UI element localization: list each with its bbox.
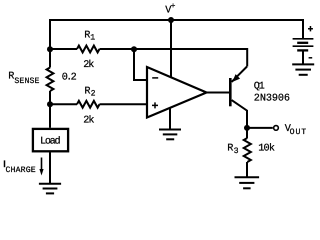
wire battery drop from top rail [302, 19, 304, 39]
wire left rail lower [49, 91, 51, 128]
svg-text:OUT: OUT [290, 128, 307, 137]
label R2 [84, 87, 95, 99]
svg-text:Q1: Q1 [254, 82, 265, 93]
transistor Q1 base bar [229, 78, 232, 106]
label R3 [227, 144, 238, 157]
op-amp U1 triangle [147, 67, 207, 118]
wire R2 right segment to non-inverting input [100, 103, 148, 105]
transistor Q1 emitter lead [232, 67, 247, 82]
label + (battery) [308, 26, 313, 31]
label R1 [84, 30, 95, 42]
wire R3 bottom to ground [246, 162, 248, 177]
ground (op-amp) [159, 130, 181, 140]
wire left rail upper [49, 19, 51, 68]
node B junction dot (bottom of RSENSE / R2 left) [47, 101, 53, 107]
svg-text:SENSE: SENSE [14, 77, 39, 86]
resistor RSENSE [47, 68, 54, 92]
terminal VOUT circle [274, 126, 279, 131]
battery B1 plates [293, 39, 314, 51]
svg-text:0.2: 0.2 [62, 72, 77, 83]
transistor Q1 emitter arrowhead [232, 74, 240, 82]
node VOUT junction dot [244, 125, 250, 131]
svg-text:2N3906: 2N3906 [254, 94, 290, 105]
op-amp minus sign [152, 77, 158, 79]
wire V+ drop to op-amp [170, 20, 172, 79]
svg-text:10k: 10k [258, 143, 275, 155]
svg-text:R: R [84, 87, 90, 98]
op-amp plus sign [152, 102, 158, 108]
wire load box to ground [49, 152, 51, 184]
svg-text:CHARGE: CHARGE [6, 166, 36, 175]
resistor R2 [77, 101, 100, 108]
svg-text:Load: Load [40, 136, 61, 148]
label VOUT [285, 124, 306, 137]
wire VOUT [247, 127, 273, 129]
svg-text:2: 2 [91, 90, 96, 99]
node A junction dot (top of RSENSE / R1 left) [47, 46, 53, 52]
wire R1 left segment [50, 48, 77, 50]
wire op-amp V- pin down [169, 108, 171, 129]
svg-text:+: + [171, 3, 176, 11]
svg-text:3: 3 [234, 147, 239, 156]
wire R1 right segment to emitter corner [100, 49, 248, 67]
wire VOUT node to R3 [246, 128, 248, 138]
svg-text:2k: 2k [83, 59, 94, 71]
svg-text:R: R [227, 144, 233, 155]
svg-text:2k: 2k [83, 115, 94, 127]
resistor R3 [244, 138, 251, 162]
label V+ [165, 3, 175, 16]
svg-text:1: 1 [90, 34, 95, 43]
transistor Q1 collector lead [232, 100, 247, 128]
load box [33, 129, 68, 151]
node junction dot on R1 line (inverting tap) [131, 46, 137, 52]
ICHARGE current arrow [39, 158, 43, 176]
wire R2 left segment [50, 103, 77, 105]
wire battery to ground [302, 51, 304, 64]
wire op-amp output to base [207, 92, 230, 94]
label RSENSE [8, 72, 39, 86]
ground (R3) [235, 177, 260, 188]
label - (battery) [309, 57, 313, 59]
ground (battery) [292, 64, 314, 74]
wire top rail V+ [50, 19, 303, 21]
resistor R1 [77, 46, 100, 53]
wire tap to inverting input [134, 49, 147, 80]
node V+ junction dot [168, 17, 174, 23]
label ICHARGE [5, 160, 36, 175]
ground (load) [39, 184, 61, 194]
